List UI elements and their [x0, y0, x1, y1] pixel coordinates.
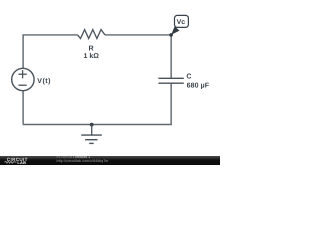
footer CircuitLab logo: [0, 156, 56, 166]
ground junction dot: [90, 123, 94, 127]
node Vc flag box: [175, 15, 189, 27]
svg-text:LAB: LAB: [17, 159, 26, 164]
voltage source V1 circle: [12, 68, 34, 90]
wire bottom horizontal: [23, 124, 172, 126]
svg-text:Vc: Vc: [177, 19, 186, 26]
node Vc flag pointer: [171, 26, 179, 35]
wire top-right horizontal: [105, 34, 171, 36]
voltage source V1 minus sign: [19, 84, 27, 86]
wire right vertical upper: [170, 35, 172, 78]
ground: [81, 125, 102, 144]
wire left vertical lower: [22, 91, 24, 125]
svg-text:R: R: [89, 45, 94, 53]
svg-text:680 µF: 680 µF: [187, 83, 210, 90]
wire left vertical upper: [22, 35, 24, 69]
svg-text:C: C: [186, 73, 191, 81]
capacitor C1 top plate: [158, 77, 183, 79]
node Vc label text: [177, 19, 186, 26]
footer bar: [0, 156, 220, 166]
node junction dot at Vc: [169, 33, 173, 37]
svg-text:1 kΩ: 1 kΩ: [84, 52, 100, 60]
capacitor C1 bottom plate: [158, 82, 183, 84]
footer circuit title text: [57, 156, 109, 164]
voltage source V1 label V(t): [37, 77, 51, 85]
capacitor C1 name label C: [186, 73, 191, 81]
resistor R1 name label R: [89, 45, 94, 53]
voltage source V1 plus sign: [19, 70, 27, 78]
wire top-left horizontal: [22, 34, 77, 36]
resistor R1 zigzag: [78, 30, 105, 39]
resistor R1 value label 1 kOhm: [84, 52, 100, 60]
svg-text:V(t): V(t): [37, 77, 51, 85]
capacitor C1 value label 680 uF: [187, 83, 210, 90]
wire right vertical lower: [170, 83, 172, 124]
